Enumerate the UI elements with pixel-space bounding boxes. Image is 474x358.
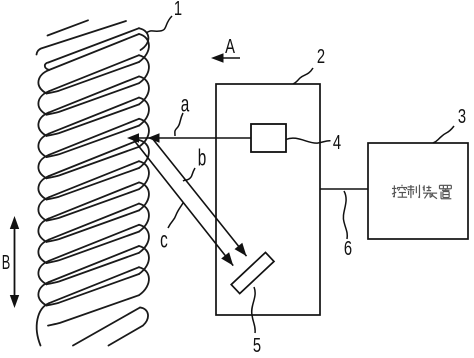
box 2 (sensor head) [216,84,320,315]
coil 1 (threaded rod / spring) [37,20,149,345]
leader to label a [175,113,183,136]
label a [180,90,189,117]
leader to label 4 [286,138,331,143]
mirror 5 (photodetector) [231,252,274,293]
beam b (reflected light) [152,138,247,256]
leader to label 2 [293,68,313,84]
label B [2,251,10,275]
leader to label 5 [252,287,256,333]
beam c (reflected light) [133,139,233,266]
label b [198,144,207,171]
text 控制装置 (control device) [392,185,407,197]
label 1 [173,0,181,21]
leader to label c [168,203,183,228]
box 3 (control device) [368,143,468,239]
arrow B (movement direction) [14,224,16,300]
label 4 [332,131,340,155]
label A [225,35,235,59]
label 6 [344,237,352,261]
leader to label 1 [146,16,172,33]
arrow A (view direction) [216,57,240,59]
label c [160,227,168,254]
beam a (incident light) [130,137,251,139]
label 2 [316,45,324,69]
leader to label 3 [433,126,454,143]
wire 6 (connection box2-box3) [320,188,368,190]
leader to label b [183,168,195,181]
label 3 [457,105,465,129]
box 4 (light source) [251,124,286,152]
label 5 [252,334,260,358]
leader to label 6 [343,191,347,239]
